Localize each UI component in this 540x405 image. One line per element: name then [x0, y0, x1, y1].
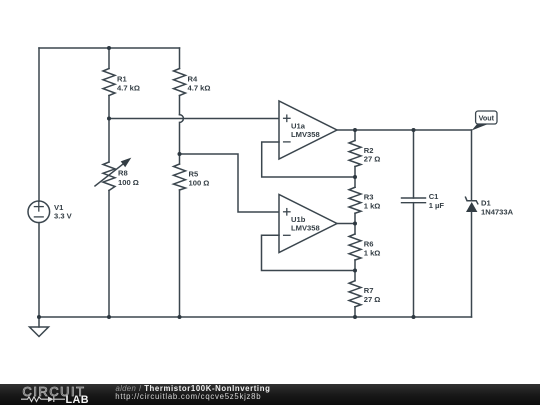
label C1 value: [429, 192, 445, 210]
wire left rail lower: [38, 223, 40, 327]
label R6 value: [364, 239, 381, 257]
svg-text:C1: C1: [429, 192, 439, 201]
resistor R7: [349, 281, 361, 317]
wire U1b output: [337, 223, 355, 225]
wire R5 top to U1b noninverting input: [180, 154, 280, 212]
svg-text:LAB: LAB: [66, 394, 89, 405]
label R4 value: [188, 75, 211, 93]
label R3 value: [364, 193, 381, 211]
svg-text:R8: R8: [118, 169, 128, 178]
wire U1b feedback: [262, 235, 356, 270]
resistor R3: [349, 187, 361, 234]
capacitor C1: [402, 130, 426, 317]
svg-text:1 µF: 1 µF: [429, 201, 445, 210]
resistor R5: [174, 154, 186, 317]
svg-text:100 Ω: 100 Ω: [118, 178, 139, 187]
svg-text:R7: R7: [364, 286, 374, 295]
voltage source V1: [28, 201, 50, 223]
svg-text:R4: R4: [188, 75, 198, 84]
svg-text:http://circuitlab.com/cqcve5z5: http://circuitlab.com/cqcve5z5kjz8b: [115, 392, 261, 401]
svg-text:3.3 V: 3.3 V: [54, 212, 73, 221]
logo schematic squiggle: [21, 396, 65, 402]
resistor R1: [103, 48, 115, 119]
svg-text:1N4733A: 1N4733A: [481, 208, 514, 217]
label U1b: [291, 215, 320, 233]
svg-text:R6: R6: [364, 239, 374, 248]
svg-text:100 Ω: 100 Ω: [189, 178, 210, 187]
svg-text:R1: R1: [117, 75, 127, 84]
svg-text:D1: D1: [481, 199, 491, 208]
svg-text:27 Ω: 27 Ω: [364, 295, 381, 304]
wire hop R4 to R5 over input row: [180, 115, 184, 154]
node Vout flag: [472, 111, 497, 131]
wire U1a feedback: [262, 142, 355, 177]
svg-text:R2: R2: [364, 146, 374, 155]
resistor R8 (variable): [95, 119, 131, 318]
footer bar: [0, 384, 540, 405]
svg-text:Vout: Vout: [479, 113, 495, 122]
wire noninverting input row U1a: [109, 118, 279, 120]
svg-text:4.7 kΩ: 4.7 kΩ: [117, 84, 140, 93]
label V1 value: [54, 203, 73, 221]
op-amp U1a: [279, 101, 337, 159]
svg-text:4.7 kΩ: 4.7 kΩ: [188, 84, 211, 93]
svg-text:27 Ω: 27 Ω: [364, 155, 381, 164]
svg-text:U1a: U1a: [291, 121, 306, 130]
label R1 value: [117, 75, 140, 93]
label R5 value: [189, 169, 210, 187]
wire top rail: [39, 47, 180, 49]
resistor R2: [349, 130, 361, 187]
svg-text:LMV358: LMV358: [291, 130, 320, 139]
wire U1a output row: [337, 129, 472, 131]
svg-text:LMV358: LMV358: [291, 224, 320, 233]
label R8 value: [118, 169, 139, 187]
svg-text:1 kΩ: 1 kΩ: [364, 248, 381, 257]
svg-text:R3: R3: [364, 193, 374, 202]
label R2 value: [364, 146, 381, 164]
svg-text:R5: R5: [189, 169, 199, 178]
zener diode D1: [466, 130, 478, 317]
op-amp U1b: [279, 195, 337, 253]
resistor R6: [349, 234, 361, 281]
resistor R4: [174, 48, 186, 115]
wire bottom rail: [39, 316, 472, 318]
svg-text:1 kΩ: 1 kΩ: [364, 202, 381, 211]
svg-text:U1b: U1b: [291, 215, 306, 224]
label D1 value: [481, 199, 514, 217]
ground: [30, 327, 49, 337]
label R7 value: [364, 286, 381, 304]
wire left rail upper: [38, 48, 40, 201]
label U1a: [291, 121, 320, 139]
